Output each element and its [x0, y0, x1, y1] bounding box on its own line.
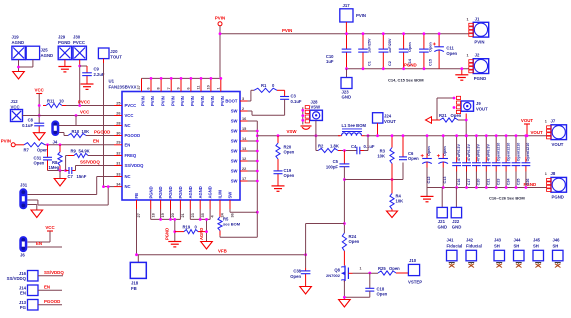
connector J20 TOUT: [98, 48, 109, 59]
wire EN row: [45, 144, 114, 146]
net label VOUT rail: [531, 130, 544, 135]
svg-text:PGND: PGND: [178, 186, 183, 198]
net label VSW: [287, 129, 298, 134]
label Q8: [334, 268, 340, 273]
value C14 Open: [408, 42, 412, 52]
svg-text:Open: Open: [284, 173, 295, 178]
svg-text:20: 20: [171, 213, 175, 217]
svg-text:C2: C2: [388, 61, 392, 66]
wire J30 down to PVCC row: [79, 64, 81, 106]
junction: [343, 222, 346, 225]
svg-text:Open/1210: Open/1210: [516, 143, 520, 162]
capacitor C31 Open: [43, 145, 52, 171]
capacitor C20 47uF/6.3V: [472, 157, 481, 172]
junction: [438, 32, 441, 35]
connector J45 SH: [533, 250, 544, 260]
capacitor C21 47uF/6.3V: [482, 157, 491, 172]
wire SW vertical bus: [256, 121, 258, 237]
wire J22 stub: [455, 188, 457, 208]
label C3: [291, 94, 297, 99]
label J41 Fiducial: [447, 243, 463, 248]
svg-text:FB: FB: [134, 193, 139, 199]
net label EN: [93, 139, 99, 144]
wire J31 mid to NC34: [27, 187, 108, 205]
svg-text:R10: R10: [72, 129, 80, 134]
svg-text:1: 1: [360, 267, 362, 271]
wire PVIN pin link: [142, 77, 221, 79]
svg-text:37: 37: [137, 85, 141, 89]
resistor R7 Open: [24, 143, 45, 147]
wire C21 top: [485, 136, 487, 157]
wire J17 to rail: [345, 22, 347, 34]
label C10: [326, 54, 334, 59]
svg-text:J13: J13: [19, 300, 27, 305]
wire C5 bottom chain: [343, 167, 345, 233]
svg-text:PVCC: PVCC: [73, 40, 85, 45]
wire J24 stub: [377, 123, 379, 135]
net label SS/VDDQ: [80, 159, 100, 164]
value C2 1uF/25V: [388, 38, 392, 53]
svg-text:J6: J6: [20, 253, 25, 258]
wire C25 bottom: [515, 172, 517, 188]
label C38: [293, 269, 301, 274]
svg-text:PVIN: PVIN: [190, 96, 195, 106]
junction: [59, 169, 62, 172]
label C23: [497, 179, 501, 186]
label FAN23SBVXX: [109, 85, 137, 90]
svg-text:22: 22: [242, 167, 246, 171]
wire to input ground: [461, 69, 463, 75]
connector J43 SH: [494, 250, 505, 260]
svg-text:11: 11: [197, 85, 201, 89]
label J28 VSW: [311, 104, 321, 109]
label J21: [438, 219, 446, 224]
resistor R20 Open: [276, 136, 280, 159]
svg-text:R7: R7: [24, 148, 30, 153]
resistor R10 10K: [68, 133, 86, 137]
svg-text:100pF: 100pF: [326, 165, 339, 170]
svg-text:8: 8: [157, 87, 161, 89]
power symbol VOUT: [521, 118, 534, 136]
wire J13 stub: [38, 304, 62, 306]
resistor R3 10K: [390, 136, 394, 180]
connector J10 VSTEP: [408, 264, 419, 275]
svg-text:J29: J29: [58, 35, 66, 40]
label R21: [439, 113, 447, 118]
wire divider node line: [344, 163, 403, 180]
label J16 SS/VDDQ: [7, 276, 27, 281]
svg-text:AGND: AGND: [198, 186, 203, 198]
label J16: [19, 271, 27, 276]
svg-text:PVIN: PVIN: [282, 28, 292, 33]
capacitor C10 1uF: [342, 34, 352, 69]
label J30: [73, 35, 81, 40]
svg-text:Q8: Q8: [334, 268, 340, 273]
svg-text:VOUT: VOUT: [531, 130, 544, 135]
capacitor C2 1uF/25V: [379, 34, 389, 69]
svg-text:PVIN: PVIN: [200, 96, 205, 106]
capacitor C6 Open: [399, 136, 407, 160]
junction: [199, 218, 202, 221]
net label SS/VDDQ at J16: [44, 270, 64, 275]
svg-text:C23: C23: [497, 179, 501, 186]
svg-text:C25: C25: [516, 179, 520, 186]
junction: [345, 67, 348, 70]
junction: [17, 66, 20, 69]
svg-text:R11: R11: [47, 99, 55, 104]
svg-text:FB: FB: [131, 286, 137, 291]
wire J28 center to rail: [315, 121, 317, 136]
wire C17 top: [466, 136, 468, 157]
value R2 1.8K: [330, 144, 339, 149]
note C14 C15 See BOM: [388, 78, 424, 83]
wire R2 branch: [316, 136, 318, 151]
svg-text:PGOOD: PGOOD: [94, 129, 110, 134]
junction: [460, 67, 463, 70]
svg-text:21: 21: [181, 213, 185, 217]
svg-text:16: 16: [242, 117, 246, 121]
svg-text:J8: J8: [551, 171, 556, 176]
svg-text:VFB: VFB: [218, 249, 227, 254]
wire J4 top to NC28 row: [59, 125, 76, 127]
junction J28 pin: [301, 109, 304, 112]
value C21 47uF/6.3V: [487, 144, 491, 162]
junction: [455, 134, 458, 137]
junction: [442, 186, 445, 189]
value C15 Open: [428, 42, 432, 52]
value C11 Open: [446, 51, 457, 56]
wire J29 to ground: [64, 60, 66, 67]
svg-text:VOUT: VOUT: [476, 106, 488, 111]
svg-text:PVIN: PVIN: [170, 96, 175, 106]
junction PVIN pin link: [160, 77, 163, 80]
wire PGND down: [174, 219, 176, 241]
svg-text:0.1uF: 0.1uF: [291, 99, 302, 104]
label J9: [476, 101, 481, 106]
svg-text:SH: SH: [553, 243, 559, 248]
svg-text:47uF/6.3V: 47uF/6.3V: [487, 144, 491, 162]
svg-text:ILIM: ILIM: [218, 190, 223, 199]
svg-text:AGND: AGND: [41, 53, 54, 58]
svg-text:C26: C26: [526, 179, 530, 186]
junction J9 pin: [453, 106, 456, 109]
connector J46 SH: [553, 250, 564, 260]
label J25 AGND: [41, 53, 54, 58]
wire C4 return to rail: [364, 136, 368, 151]
svg-text:C17: C17: [467, 179, 471, 186]
junction: [391, 134, 394, 137]
svg-text:R1: R1: [261, 83, 267, 88]
junction: [382, 67, 385, 70]
label J12 VCC: [11, 104, 20, 109]
capacitor C18 Open: [365, 288, 374, 291]
junction: [173, 218, 176, 221]
junction: [169, 218, 172, 221]
junction: [46, 143, 49, 146]
svg-text:47uF/6.3V: 47uF/6.3V: [457, 144, 461, 162]
svg-text:17: 17: [242, 177, 246, 181]
wire R5 bottom link: [220, 236, 257, 238]
junction: [362, 32, 365, 35]
capacitor C12 Open: [421, 154, 432, 164]
junction: [38, 104, 41, 107]
U1 top pins PVIN x9: [137, 78, 225, 106]
wire FB down: [136, 209, 138, 255]
svg-text:NC: NC: [125, 174, 131, 179]
junction PVIN pin link: [190, 77, 193, 80]
junction: [485, 186, 488, 189]
wire EN filter node: [48, 170, 66, 172]
svg-text:PG: PG: [20, 305, 27, 310]
svg-text:SS/VDDQ: SS/VDDQ: [80, 159, 100, 164]
svg-text:C7: C7: [68, 174, 74, 179]
wire Q8 gate to R25: [353, 272, 379, 274]
svg-text:J19: J19: [12, 35, 20, 40]
svg-text:TOUT: TOUT: [110, 54, 122, 59]
label R24: [349, 234, 357, 239]
label C7: [68, 174, 74, 179]
svg-text:J7: J7: [551, 119, 556, 124]
label C11: [446, 46, 454, 51]
label J46: [553, 238, 561, 243]
wire J31 bottom to ground: [27, 205, 36, 211]
junction: [343, 296, 346, 299]
label C18: [377, 287, 385, 292]
svg-text:R2: R2: [318, 144, 324, 149]
svg-text:1uF: 1uF: [326, 59, 334, 64]
wire C12 top: [426, 136, 428, 154]
junction SW bus: [256, 150, 259, 153]
svg-text:PVIN: PVIN: [141, 96, 146, 106]
svg-text:Open: Open: [377, 292, 388, 297]
svg-text:C15: C15: [428, 59, 432, 66]
connector J29 PGND: [58, 46, 71, 59]
label J17 PVIN: [356, 13, 366, 18]
connector J9 VOUT: [461, 101, 474, 111]
svg-text:J20: J20: [110, 49, 118, 54]
value R1 0: [272, 83, 275, 88]
junction SW bus pin36: [256, 211, 259, 214]
svg-text:6: 6: [147, 87, 151, 89]
label R4: [396, 194, 402, 199]
label C5: [333, 159, 339, 164]
inductor L1 core bars: [342, 129, 362, 132]
label J7: [551, 119, 556, 124]
label C24: [506, 178, 510, 186]
label C13: [443, 177, 447, 184]
wire C26 bottom: [525, 172, 527, 188]
wire VCC row: [23, 115, 115, 117]
junction: [343, 178, 346, 181]
junction PVIN pin link: [170, 77, 173, 80]
power symbol PVIN top: [215, 16, 225, 26]
svg-text:C1: C1: [368, 61, 372, 66]
label C4: [351, 144, 357, 149]
junction: [59, 143, 62, 146]
wire FREQ row: [88, 155, 114, 157]
svg-text:AGND: AGND: [199, 228, 204, 240]
value C5 100pF: [326, 165, 339, 170]
svg-text:J42: J42: [466, 238, 474, 243]
value R24 Open: [349, 239, 360, 244]
svg-text:J2: J2: [475, 53, 480, 58]
label J22 GND: [452, 224, 462, 229]
U1 bottom pins FB PGND AGND ILIM SW: [134, 186, 235, 217]
svg-text:J45: J45: [533, 238, 541, 243]
resistor R9 54.9K: [68, 153, 88, 157]
svg-text:J25: J25: [41, 48, 49, 53]
wire AGND join: [190, 218, 210, 220]
svg-text:SW: SW: [228, 192, 233, 199]
junction: [368, 272, 371, 275]
label C1: [368, 61, 372, 66]
capacitor C4 0.1uF: [357, 147, 364, 155]
svg-text:12: 12: [242, 157, 246, 161]
junction: [423, 32, 426, 35]
svg-text:2N7002: 2N7002: [326, 273, 341, 278]
svg-text:SW: SW: [231, 139, 238, 144]
jumper J4: [52, 121, 59, 136]
connector J18 FB: [130, 262, 146, 278]
value C23 Open/1210: [497, 143, 501, 162]
value C13 Open: [443, 146, 447, 156]
label J42: [466, 238, 474, 243]
wire NC28 vertical to VCC: [75, 116, 77, 126]
svg-text:AGND: AGND: [188, 186, 193, 198]
net label PGOOD at J13: [44, 299, 60, 304]
label J18 FB: [131, 286, 137, 291]
label J41: [447, 238, 455, 243]
jumper J6: [20, 237, 27, 252]
svg-text:GND: GND: [342, 95, 352, 100]
resistor R25 Open: [378, 271, 408, 275]
svg-text:C14, C15 See BOM: C14, C15 See BOM: [388, 78, 424, 83]
wire NC33 row: [97, 176, 114, 178]
no-connect below J42: [468, 263, 474, 268]
svg-text:10: 10: [207, 85, 211, 89]
svg-text:SW: SW: [231, 149, 238, 154]
wire R21 to J9: [458, 120, 466, 136]
wire J18 stub: [137, 255, 139, 263]
label J13 PG: [20, 305, 27, 310]
ground below R8: [54, 179, 66, 187]
junction: [465, 119, 468, 122]
op-amp U1 FAN23SBVXX regulator IC body: [122, 92, 240, 201]
svg-text:NC: NC: [125, 123, 131, 128]
label J42 Fiducial: [466, 243, 482, 248]
svg-text:47uF/6.3V: 47uF/6.3V: [477, 144, 481, 162]
junction SW bus: [256, 130, 259, 133]
label J7 VOUT: [552, 142, 564, 147]
label C9: [94, 67, 100, 72]
ground below C19: [272, 186, 285, 191]
svg-text:VSW: VSW: [311, 104, 321, 109]
power symbol VCC at J6: [45, 225, 55, 231]
label J2 PGND: [474, 76, 486, 81]
junction: [159, 218, 162, 221]
label J28: [311, 99, 319, 104]
connector J1 PVIN banana: [469, 22, 489, 37]
svg-text:PGND: PGND: [148, 186, 153, 198]
svg-text:6: 6: [187, 87, 191, 89]
value C10 1uF: [326, 59, 334, 64]
label J29 PGND: [58, 40, 70, 45]
svg-text:PVIN: PVIN: [215, 16, 225, 21]
junction: [495, 186, 498, 189]
svg-text:SW: SW: [231, 129, 238, 134]
value C3 0.1uF: [291, 99, 302, 104]
svg-text:GND: GND: [452, 224, 462, 229]
svg-text:J41: J41: [447, 238, 455, 243]
capacitor C3 0.1uF: [280, 97, 289, 100]
label C8: [28, 118, 34, 123]
svg-text:see BOM: see BOM: [223, 222, 241, 227]
resistor R5 see BOM: [218, 209, 222, 236]
svg-text:EN: EN: [36, 241, 42, 246]
wire C25 top: [515, 136, 517, 157]
value C38 Open: [290, 274, 301, 279]
wire J19 J25 to ground: [18, 60, 20, 72]
junction SW bus: [256, 180, 259, 183]
value R4 10K: [396, 199, 404, 204]
svg-text:Open: Open: [37, 148, 48, 153]
svg-text:30: 30: [116, 131, 120, 135]
label J1 PVIN: [474, 40, 484, 45]
value R25 Open: [389, 266, 400, 271]
svg-text:J4: J4: [53, 140, 58, 145]
svg-text:VOUT: VOUT: [521, 118, 534, 123]
label J30 PVCC: [73, 40, 85, 45]
svg-text:10: 10: [59, 99, 64, 104]
svg-text:AGND: AGND: [208, 186, 213, 198]
label J23 GND: [342, 95, 352, 100]
connector J16: [28, 271, 39, 282]
label J44 SH: [514, 243, 520, 248]
connector J14: [28, 285, 39, 296]
wire C24 top: [505, 136, 507, 157]
wire J4 bottom: [59, 133, 68, 136]
wire J16 stub: [38, 275, 63, 277]
label J10 VSTEP: [408, 279, 422, 284]
svg-text:PVIN: PVIN: [150, 96, 155, 106]
wire J23 stub: [346, 69, 348, 78]
label J31: [20, 182, 28, 187]
net label PGND rotated: [165, 228, 170, 240]
value R11 10: [59, 99, 64, 104]
svg-text:J24: J24: [384, 114, 392, 119]
wire C9 branch: [80, 65, 87, 67]
svg-text:33: 33: [116, 172, 120, 176]
junction PVIN pin link: [219, 77, 222, 80]
junction: [304, 253, 307, 256]
resistor R21 Open: [432, 118, 459, 122]
junction: [382, 32, 385, 35]
label J18: [131, 281, 139, 286]
svg-text:BOOT: BOOT: [225, 99, 238, 104]
wire output rail ground stub: [426, 188, 428, 197]
wire C16 top: [456, 136, 458, 157]
junction: [38, 114, 41, 117]
label J20 TOUT: [110, 54, 122, 59]
wire PGOOD row: [86, 135, 114, 137]
svg-text:Open/1210: Open/1210: [497, 143, 501, 162]
svg-text:C4: C4: [351, 144, 357, 149]
resistor R19 0: [175, 230, 207, 234]
value C12 Open: [427, 146, 431, 156]
svg-text:J44: J44: [514, 238, 522, 243]
capacitor C8 0.1uF: [34, 123, 44, 133]
label R10: [72, 129, 80, 134]
